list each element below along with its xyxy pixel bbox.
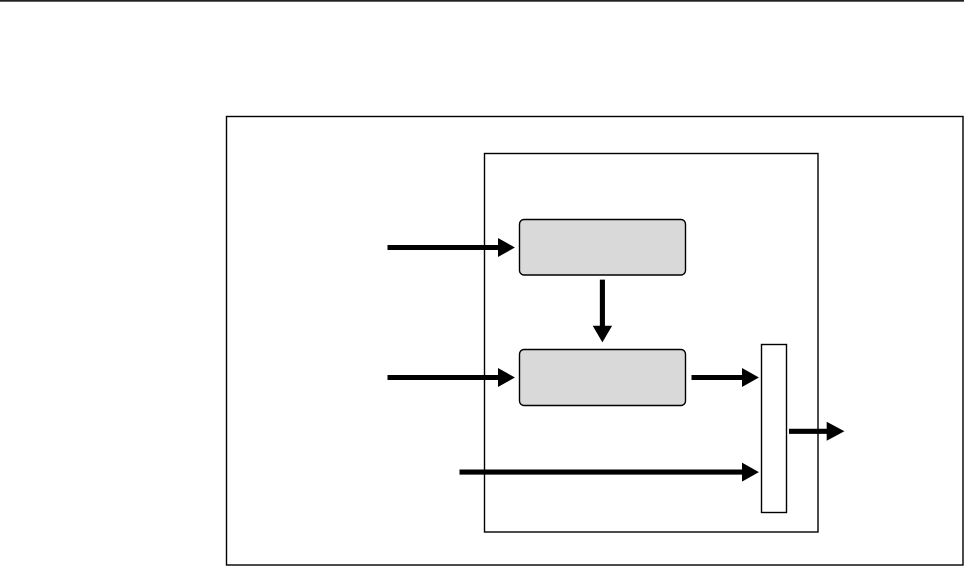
outer system box [227,117,964,566]
arrow input 2 into block B2 [388,368,515,387]
inner module box [485,154,819,533]
block B2 (middle grey rounded box) [520,350,686,406]
arrow from block B1 down to block B2 [593,280,612,343]
arrow input 1 into block B1 [388,238,515,257]
arrow output from selector bar [789,422,844,441]
output selector bar [762,345,787,513]
arrow from block B2 to selector bar [692,368,759,387]
block B1 (top grey rounded box) [520,220,686,276]
arrow input 3 (long) to selector bar [460,463,759,482]
header rule [0,0,964,2]
